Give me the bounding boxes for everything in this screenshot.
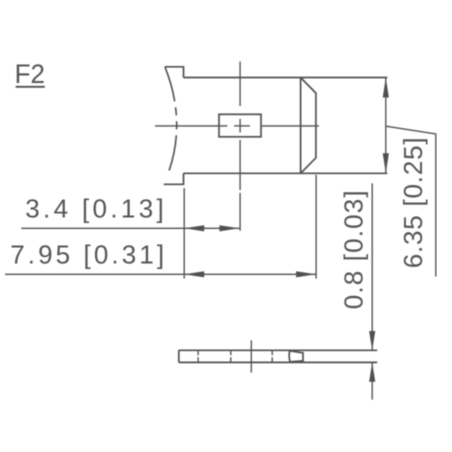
svg-text:F2: F2 xyxy=(15,59,45,89)
svg-text:0.8 [0.03]: 0.8 [0.03] xyxy=(338,189,368,309)
svg-text:6.35 [0.25]: 6.35 [0.25] xyxy=(398,137,428,269)
svg-text:3.4 [0.13]: 3.4 [0.13] xyxy=(25,193,167,223)
svg-text:7.95 [0.31]: 7.95 [0.31] xyxy=(10,239,167,269)
